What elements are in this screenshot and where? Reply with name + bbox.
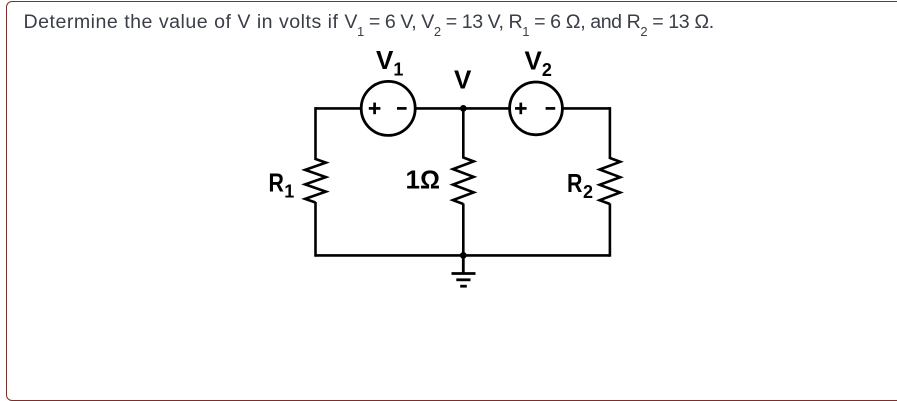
label 1 ohm value xyxy=(406,165,440,195)
wire right lower xyxy=(609,204,612,257)
resistor R2 xyxy=(600,158,621,204)
node V junction dot xyxy=(460,105,467,112)
wire middle lower xyxy=(462,204,465,256)
svg-text:2: 2 xyxy=(583,182,593,202)
svg-text:V: V xyxy=(454,65,472,95)
label R2 xyxy=(567,168,593,202)
node ground junction dot xyxy=(460,252,467,259)
wire right upper xyxy=(609,107,612,159)
resistor 1ohm xyxy=(453,158,474,205)
wire middle upper xyxy=(462,108,465,158)
voltage source V2 xyxy=(510,82,563,135)
label V1 xyxy=(376,45,403,80)
wire bottom xyxy=(316,254,610,257)
svg-text:1Ω: 1Ω xyxy=(406,165,440,195)
svg-text:V1: V1 xyxy=(376,45,403,80)
wire left upper xyxy=(314,107,317,160)
wire top xyxy=(316,107,610,110)
label node V xyxy=(454,65,472,95)
svg-text:R: R xyxy=(269,168,285,198)
resistor R1 xyxy=(305,159,326,203)
question text xyxy=(24,11,884,34)
wire left lower xyxy=(314,202,317,257)
label V2 xyxy=(525,46,552,81)
label R1 xyxy=(269,168,295,202)
svg-text:R: R xyxy=(567,168,583,198)
svg-text:1: 1 xyxy=(284,182,294,202)
ground xyxy=(452,255,476,286)
voltage source V1 xyxy=(361,81,415,135)
svg-text:V2: V2 xyxy=(525,46,552,81)
